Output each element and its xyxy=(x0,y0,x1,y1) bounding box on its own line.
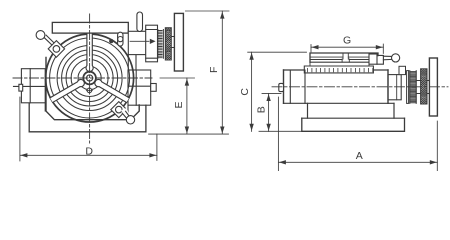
base flange xyxy=(302,118,405,131)
left end knob xyxy=(279,83,284,91)
right baseline extension xyxy=(259,130,302,132)
dimension C xyxy=(248,51,307,53)
dimension E xyxy=(160,77,195,79)
dial cylinder xyxy=(146,25,158,62)
dial flange xyxy=(407,71,409,104)
hub xyxy=(83,72,96,85)
base xyxy=(29,104,146,132)
right support bracket xyxy=(128,70,151,105)
centrelines xyxy=(13,77,152,79)
small hub below centre xyxy=(87,88,92,93)
svg-text:A: A xyxy=(356,150,363,162)
dimension B xyxy=(262,92,281,94)
T-slot section xyxy=(342,53,349,62)
table dial circles xyxy=(46,34,134,122)
left support bracket xyxy=(21,69,45,103)
dimension F xyxy=(185,10,229,12)
handwheel housing xyxy=(128,31,146,54)
table top plate xyxy=(310,53,378,62)
svg-text:C: C xyxy=(239,88,251,96)
top boss xyxy=(399,66,406,74)
dial comb xyxy=(410,72,416,103)
dimension D xyxy=(20,97,157,161)
T-slots xyxy=(86,34,93,72)
vernier comb xyxy=(158,31,162,58)
baseline extension xyxy=(149,133,229,135)
body outline xyxy=(46,58,139,120)
main body xyxy=(284,69,389,71)
bottom-right clamp handle xyxy=(111,102,127,118)
svg-text:E: E xyxy=(173,101,185,108)
knob capsule xyxy=(137,12,143,32)
handwheel disc right xyxy=(429,58,437,116)
shaft housing xyxy=(388,75,401,100)
dimension A xyxy=(278,97,437,171)
clamp block xyxy=(369,54,377,64)
graduated swivel ring xyxy=(310,62,369,66)
dimension G xyxy=(311,44,383,54)
pin capsule xyxy=(118,32,123,46)
axis centreline xyxy=(272,86,448,88)
handwheel disc xyxy=(174,13,183,71)
bolt dot xyxy=(109,39,113,43)
clamp handle bar xyxy=(383,56,391,60)
shaft to disc xyxy=(427,81,429,94)
shaft xyxy=(171,37,174,48)
spacer shaft xyxy=(416,81,420,94)
svg-text:F: F xyxy=(208,67,220,73)
svg-text:B: B xyxy=(256,106,268,113)
svg-text:G: G xyxy=(343,35,351,47)
saddle step xyxy=(308,103,395,118)
svg-text:D: D xyxy=(85,146,93,158)
top box xyxy=(52,22,128,33)
top-left clamp handle xyxy=(44,35,54,45)
index pointer xyxy=(130,40,149,42)
